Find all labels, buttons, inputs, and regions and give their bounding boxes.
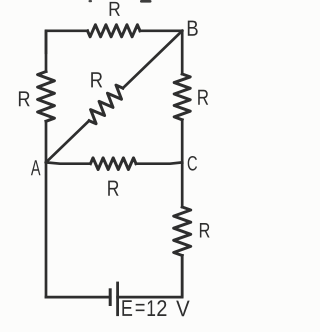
node B label	[188, 21, 198, 36]
cropped text remnant marks at top edge	[89, 0, 152, 3]
value label R of resistor R6 (right lower)	[200, 223, 210, 237]
wire: resistor R4 to node B (diagonal)	[123, 31, 182, 88]
battery label: E	[122, 300, 132, 316]
wire: node C down to resistor R6	[181, 162, 184, 207]
resistor R3 (right upper, between node B and node C)	[174, 74, 190, 120]
wire: top-left corner to resistor R1	[46, 31, 88, 53]
node C label	[188, 156, 197, 171]
wire: battery positive plate to bottom-right corner	[118, 256, 183, 298]
wire: top-left corner down to resistor R2	[45, 31, 48, 72]
node A label	[31, 160, 41, 175]
wire: resistor R1 to node B	[140, 29, 182, 32]
value label R of resistor R2 (left)	[19, 91, 30, 106]
wire: node B down to resistor R3	[181, 31, 184, 74]
value label R of resistor R5 (middle)	[108, 181, 118, 196]
wire: resistor R6 to bottom-right corner	[181, 256, 184, 298]
battery E negative plate (short)	[109, 290, 112, 305]
value label R of resistor R1 (top)	[110, 2, 120, 16]
battery label: digit 1	[148, 300, 155, 316]
battery label: digit 2	[157, 300, 166, 316]
value label R of resistor R3 (right upper)	[198, 90, 208, 105]
battery label: V	[176, 301, 189, 317]
resistor R5 (middle, between node A and node C)	[91, 158, 137, 170]
wire: node A down to bottom-left corner	[45, 162, 48, 297]
wire: resistor R5 to node C	[136, 162, 182, 163]
resistor R4 (diagonal, between node A and node B)	[89, 85, 123, 124]
wire: node A to resistor R5	[46, 162, 90, 163]
value label R of resistor R4 (diagonal)	[91, 72, 102, 87]
resistor R2 (left side, between top-left corner and node A)	[38, 72, 55, 122]
battery E positive plate (tall)	[116, 283, 119, 315]
wire: resistor R2 to node A	[45, 121, 48, 162]
resistor R6 (right lower, between node C and battery)	[174, 207, 191, 256]
wire: bottom-left corner to battery negative plate	[46, 296, 110, 299]
wire: node A to resistor R4 (diagonal)	[46, 121, 89, 163]
battery label: equals sign	[136, 304, 145, 311]
wire: resistor R3 to node C	[181, 120, 184, 163]
resistor R1 (top, between top-left corner and node B)	[88, 25, 141, 37]
